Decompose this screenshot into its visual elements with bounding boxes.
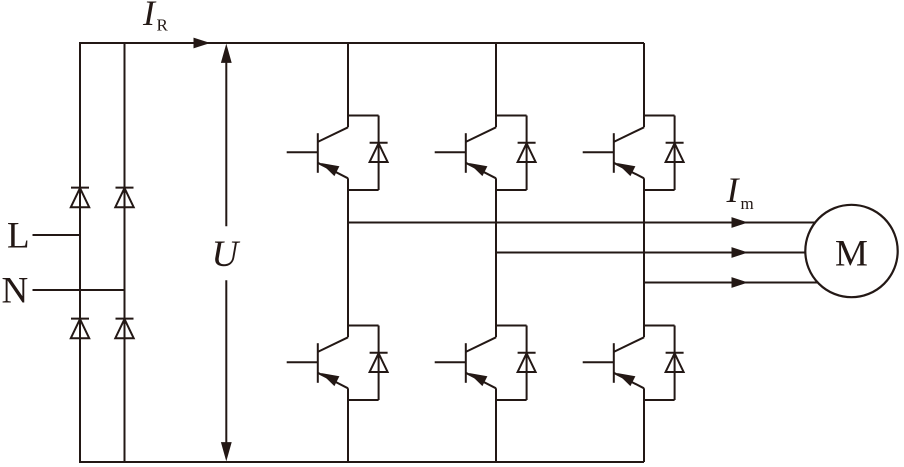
svg-text:I: I [142,0,157,33]
svg-text:I: I [726,170,741,210]
svg-text:L: L [7,216,30,257]
svg-text:M: M [835,234,868,275]
svg-text:N: N [2,271,29,312]
svg-text:U: U [212,234,241,275]
svg-text:m: m [741,194,754,213]
svg-text:R: R [157,16,169,35]
